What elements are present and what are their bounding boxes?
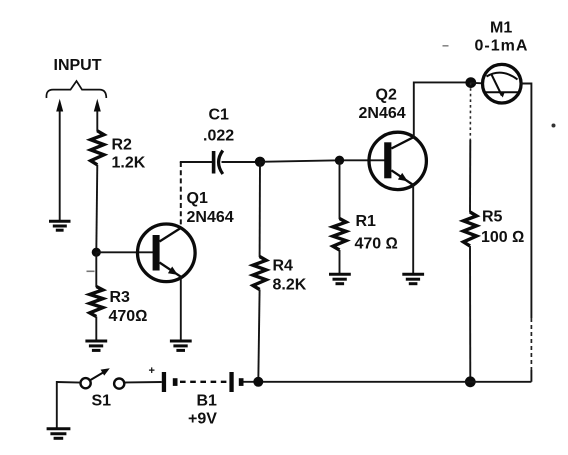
wire R5 to bottom rail [469,246,471,382]
node A junction [92,248,101,257]
svg-text:.022: .022 [203,128,234,145]
wire M1 to right rail [521,84,531,319]
wire R1 from node C [339,160,341,219]
svg-text:C1: C1 [209,107,230,124]
wire node A to R3 [95,252,97,287]
svg-text:Q1: Q1 [187,190,208,207]
svg-text:0-1mA: 0-1mA [475,38,529,55]
bottom rail right [243,381,531,383]
transistor Q2 [369,132,426,189]
stray dot [552,124,556,128]
svg-text:2N464: 2N464 [359,105,406,122]
stray mark [87,271,95,273]
svg-text:+9V: +9V [188,411,217,428]
stray dash [443,45,449,47]
capacitor C1 [214,151,223,175]
wire R1 to ground [339,250,341,273]
wire R3 to ground [95,317,97,341]
wire C1 to node B [222,161,261,163]
svg-text:R1: R1 [356,213,377,230]
wire R4 to battery node [258,290,259,382]
wire Q2 collector to node D [414,82,471,137]
svg-text:1.2K: 1.2K [112,155,146,172]
ground (R1) [329,274,351,283]
svg-text:470 Ω: 470 Ω [355,236,398,253]
wire R2 to node A [96,165,97,252]
node B junction [255,157,265,167]
wire Q2 emitter to ground [412,185,414,274]
bottom rail left [57,381,81,384]
svg-text:R5: R5 [482,209,503,226]
svg-text:B1: B1 [197,393,218,410]
node D junction (meter/R5) [465,77,476,88]
switch S1 [81,368,125,388]
transistor Q1 [138,224,196,282]
svg-text:2N464: 2N464 [187,209,234,226]
ground (input left) [49,221,71,230]
ground (Q2) [402,274,424,283]
meter M1 [483,64,522,103]
node F junction (battery/R4) [253,377,263,387]
svg-text:100 Ω: 100 Ω [481,229,524,246]
input wire left [59,110,61,220]
svg-text:R2: R2 [112,137,133,154]
svg-text:R4: R4 [273,258,294,275]
ground (R3) [85,341,107,350]
svg-text:470Ω: 470Ω [109,308,148,325]
wire node A to Q1 base [96,251,153,253]
wire to C1 [180,161,212,163]
resistor R2 [91,131,104,165]
wire node D to M1 [471,82,483,85]
svg-text:8.2K: 8.2K [273,277,307,294]
ground (S1) [47,429,71,439]
wire Q1 collector dashed [180,162,182,228]
input arrow left [56,99,63,112]
ground (Q1) [170,341,192,350]
input wire right (top) [96,110,98,132]
wire node B to Q2 base [260,160,385,162]
svg-text:Q2: Q2 [376,87,397,104]
resistor R3 [90,287,103,317]
input brace [46,81,106,98]
node E junction (bottom R5) [465,376,476,387]
svg-text:M1: M1 [490,20,512,37]
svg-text:S1: S1 [92,393,112,410]
node C junction (R1) [335,156,344,165]
wire Q1 emitter to ground [180,277,182,340]
svg-text:R3: R3 [110,289,131,306]
svg-text:INPUT: INPUT [54,57,102,74]
wire node B to R4 [259,162,261,257]
battery B1 [162,372,244,392]
resistor R1 [333,219,346,251]
resistor R5 [463,212,476,246]
svg-text:+: + [149,365,155,377]
wire node D to R5 [469,83,471,140]
wire S1 to battery [125,381,162,384]
input arrow right [94,99,101,112]
resistor R4 [253,257,266,290]
wire rail to left ground [56,381,58,428]
